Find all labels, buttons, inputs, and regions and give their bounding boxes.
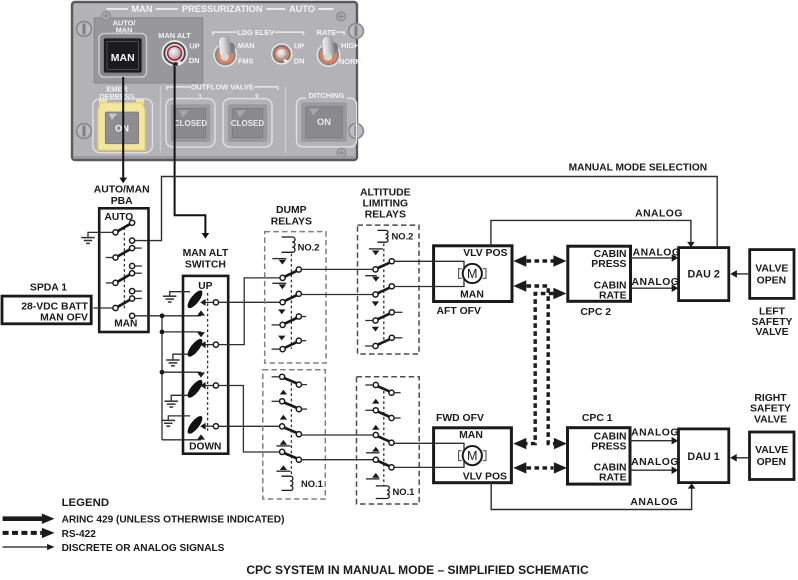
svg-text:UP: UP bbox=[189, 42, 199, 51]
svg-text:SWITCH: SWITCH bbox=[185, 259, 226, 270]
svg-text:NORM: NORM bbox=[339, 57, 362, 66]
svg-text:LEGEND: LEGEND bbox=[62, 497, 109, 509]
svg-text:FWD OFV: FWD OFV bbox=[436, 413, 484, 424]
svg-text:DOWN: DOWN bbox=[189, 442, 221, 453]
svg-text:DAU 1: DAU 1 bbox=[687, 451, 719, 463]
svg-text:CLOSED: CLOSED bbox=[231, 119, 265, 128]
svg-text:ANALOG: ANALOG bbox=[630, 497, 678, 508]
svg-text:MAN ALT: MAN ALT bbox=[183, 248, 229, 259]
svg-text:MAN: MAN bbox=[111, 52, 135, 64]
svg-text:MAN: MAN bbox=[132, 4, 153, 14]
svg-text:VALVE: VALVE bbox=[755, 263, 788, 274]
svg-text:CLOSED: CLOSED bbox=[174, 119, 208, 128]
svg-text:DUMP: DUMP bbox=[276, 205, 307, 216]
svg-text:OPEN: OPEN bbox=[757, 275, 786, 286]
svg-text:SPDA 1: SPDA 1 bbox=[30, 283, 67, 294]
svg-text:MAN OFV: MAN OFV bbox=[40, 313, 88, 324]
svg-text:ANALOG: ANALOG bbox=[632, 277, 680, 288]
svg-text:AUTO: AUTO bbox=[105, 212, 134, 223]
svg-text:FMS: FMS bbox=[238, 56, 254, 65]
svg-text:ANALOG: ANALOG bbox=[633, 247, 681, 258]
svg-text:AFT OFV: AFT OFV bbox=[437, 306, 482, 317]
svg-text:ANALOG: ANALOG bbox=[631, 457, 679, 468]
svg-text:CPC 1: CPC 1 bbox=[582, 413, 613, 424]
svg-text:OPEN: OPEN bbox=[757, 457, 786, 468]
svg-text:VALVE: VALVE bbox=[754, 415, 787, 426]
svg-text:DN: DN bbox=[189, 56, 200, 65]
svg-text:NO.1: NO.1 bbox=[393, 486, 415, 497]
svg-text:AUTO/MAN: AUTO/MAN bbox=[94, 185, 150, 196]
svg-text:AUTO: AUTO bbox=[289, 4, 315, 14]
svg-text:NO.2: NO.2 bbox=[392, 231, 414, 242]
svg-text:DITCHING: DITCHING bbox=[309, 91, 345, 100]
svg-text:PRESSURIZATION: PRESSURIZATION bbox=[182, 4, 263, 14]
svg-text:RELAYS: RELAYS bbox=[271, 217, 312, 228]
svg-text:VLV POS: VLV POS bbox=[463, 472, 507, 483]
svg-text:RATE: RATE bbox=[317, 28, 337, 37]
svg-text:ANALOG: ANALOG bbox=[631, 428, 679, 439]
svg-text:MAN: MAN bbox=[238, 41, 255, 50]
svg-text:VALVE: VALVE bbox=[755, 327, 788, 338]
svg-text:ON: ON bbox=[317, 116, 331, 127]
svg-text:ANALOG: ANALOG bbox=[635, 208, 683, 219]
svg-text:RATE: RATE bbox=[599, 472, 627, 483]
svg-text:PBA: PBA bbox=[111, 196, 133, 207]
svg-text:SAFETY: SAFETY bbox=[750, 404, 791, 415]
svg-text:UP: UP bbox=[294, 41, 304, 50]
svg-text:RS-422: RS-422 bbox=[62, 529, 97, 540]
svg-text:HIGH: HIGH bbox=[341, 41, 359, 50]
svg-text:M: M bbox=[467, 449, 478, 463]
svg-text:MAN: MAN bbox=[460, 289, 484, 300]
svg-text:NO.2: NO.2 bbox=[298, 241, 320, 252]
svg-text:MAN: MAN bbox=[114, 319, 137, 330]
svg-text:CPC 2: CPC 2 bbox=[580, 307, 611, 318]
svg-text:DAU 2: DAU 2 bbox=[687, 269, 719, 281]
svg-text:MAN: MAN bbox=[459, 430, 483, 441]
svg-text:2: 2 bbox=[255, 92, 259, 101]
svg-text:LDG ELEV: LDG ELEV bbox=[237, 28, 274, 37]
svg-text:PRESS: PRESS bbox=[591, 442, 626, 453]
svg-text:ALTITUDE: ALTITUDE bbox=[360, 188, 411, 199]
svg-text:RELAYS: RELAYS bbox=[365, 209, 406, 220]
svg-text:LIMITING: LIMITING bbox=[362, 199, 408, 210]
svg-text:OUTFLOW VALVE: OUTFLOW VALVE bbox=[191, 83, 254, 92]
svg-text:28-VDC BATT: 28-VDC BATT bbox=[21, 301, 88, 312]
svg-text:NO.1: NO.1 bbox=[301, 478, 323, 489]
svg-text:CPC SYSTEM IN MANUAL MODE – SI: CPC SYSTEM IN MANUAL MODE – SIMPLIFIED S… bbox=[246, 563, 589, 577]
svg-text:MAN ALT: MAN ALT bbox=[158, 31, 191, 40]
svg-text:DN: DN bbox=[294, 57, 305, 66]
svg-text:M: M bbox=[467, 267, 478, 281]
svg-text:RATE: RATE bbox=[599, 290, 627, 301]
svg-text:MANUAL MODE SELECTION: MANUAL MODE SELECTION bbox=[569, 163, 707, 174]
svg-text:ON: ON bbox=[115, 123, 129, 134]
svg-text:VLV POS: VLV POS bbox=[463, 248, 507, 259]
svg-text:RIGHT: RIGHT bbox=[754, 393, 787, 404]
svg-text:VALVE: VALVE bbox=[755, 445, 788, 456]
svg-text:PRESS: PRESS bbox=[591, 259, 626, 270]
svg-text:1: 1 bbox=[198, 92, 202, 101]
svg-text:ARINC 429 (UNLESS OTHERWISE IN: ARINC 429 (UNLESS OTHERWISE INDICATED) bbox=[62, 515, 285, 526]
svg-text:DISCRETE OR ANALOG SIGNALS: DISCRETE OR ANALOG SIGNALS bbox=[62, 543, 225, 554]
